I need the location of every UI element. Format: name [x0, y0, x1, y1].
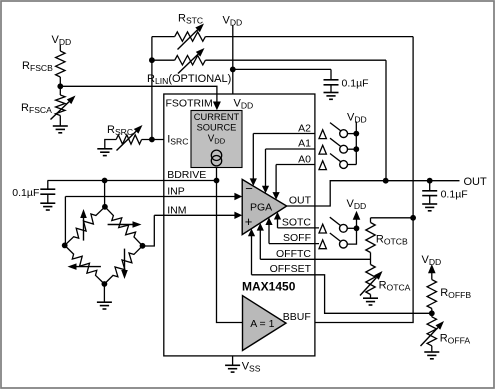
- svg-text:−: −: [245, 181, 253, 196]
- svg-text:SOURCE: SOURCE: [197, 123, 237, 133]
- svg-text:A0: A0: [298, 153, 311, 165]
- svg-text:SOFF: SOFF: [283, 232, 311, 244]
- svg-text:BBUF: BBUF: [283, 311, 311, 323]
- svg-text:A = 1: A = 1: [250, 318, 274, 330]
- svg-text:BDRIVE: BDRIVE: [167, 169, 206, 181]
- svg-text:MAX1450: MAX1450: [242, 280, 296, 294]
- svg-text:A2: A2: [298, 122, 311, 134]
- svg-text:OUT: OUT: [289, 195, 312, 207]
- svg-text:0.1µF: 0.1µF: [12, 187, 39, 199]
- svg-text:FSOTRIM: FSOTRIM: [166, 97, 213, 109]
- svg-text:0.1µF: 0.1µF: [441, 189, 468, 201]
- svg-text:INP: INP: [167, 186, 185, 198]
- svg-text:OFFSET: OFFSET: [270, 263, 312, 275]
- svg-text:CURRENT: CURRENT: [194, 112, 240, 122]
- svg-text:SOTC: SOTC: [282, 216, 312, 228]
- svg-text:OFFTC: OFFTC: [276, 248, 311, 260]
- svg-text:+: +: [245, 214, 253, 229]
- svg-text:0.1µF: 0.1µF: [342, 78, 369, 90]
- svg-text:INM: INM: [167, 204, 186, 216]
- svg-text:OUT: OUT: [464, 176, 488, 188]
- svg-text:PGA: PGA: [250, 202, 272, 214]
- svg-text:A1: A1: [298, 137, 311, 149]
